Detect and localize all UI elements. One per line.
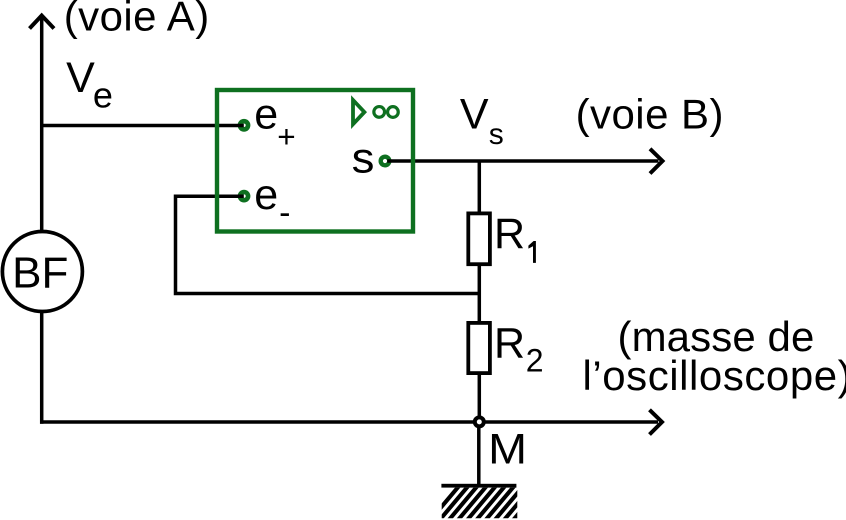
wire BF bottom vertical <box>40 311 44 424</box>
svg-text:V: V <box>66 54 95 102</box>
infinity symbol right circle <box>388 107 399 118</box>
svg-text:s: s <box>489 118 504 151</box>
terminal e- <box>240 192 248 200</box>
svg-text:M: M <box>488 425 527 473</box>
wire node M to ground <box>477 427 481 485</box>
svg-text:s: s <box>352 135 375 183</box>
wire main left vertical (voie A probe) <box>40 17 44 233</box>
svg-text:BF: BF <box>12 249 68 298</box>
BF generator circle <box>2 232 82 312</box>
svg-text:l’oscilloscope): l’oscilloscope) <box>583 352 846 399</box>
svg-text:+: + <box>277 119 295 155</box>
wire R2 to node M <box>478 373 482 417</box>
node M junction <box>475 417 484 426</box>
svg-text:R: R <box>494 319 525 367</box>
ground bar <box>441 484 516 488</box>
svg-text:2: 2 <box>526 343 544 379</box>
wire R1 to R2 <box>478 264 482 324</box>
infinity symbol left circle <box>374 107 385 118</box>
wire output s to voie B arrow <box>387 159 658 163</box>
op-amp box U1 <box>217 90 413 232</box>
arrowhead up (voie A) <box>30 16 55 29</box>
arrowhead right (voie B) <box>650 149 663 174</box>
terminal e+ <box>240 121 248 129</box>
svg-text:(voie B): (voie B) <box>576 91 724 138</box>
svg-text:e: e <box>254 91 278 139</box>
resistor R1 <box>468 213 490 264</box>
terminal s <box>381 157 390 166</box>
wire bottom horizontal to M and arrow <box>40 420 658 424</box>
resistor R2 <box>468 323 490 373</box>
svg-text:V: V <box>460 91 489 139</box>
wire Ve horizontal to e+ <box>42 124 244 128</box>
ground hatching <box>430 486 542 520</box>
svg-text:-: - <box>279 194 290 232</box>
svg-text:e: e <box>93 74 113 115</box>
svg-text:R: R <box>494 210 525 258</box>
wire divider vertical Vs to R1 <box>478 161 482 214</box>
arrowhead right (masse) <box>650 410 663 435</box>
wire feedback e- loop <box>176 196 480 293</box>
svg-text:e: e <box>254 171 278 219</box>
svg-text:(voie A): (voie A) <box>64 0 210 39</box>
op-amp triangle symbol <box>353 100 364 124</box>
